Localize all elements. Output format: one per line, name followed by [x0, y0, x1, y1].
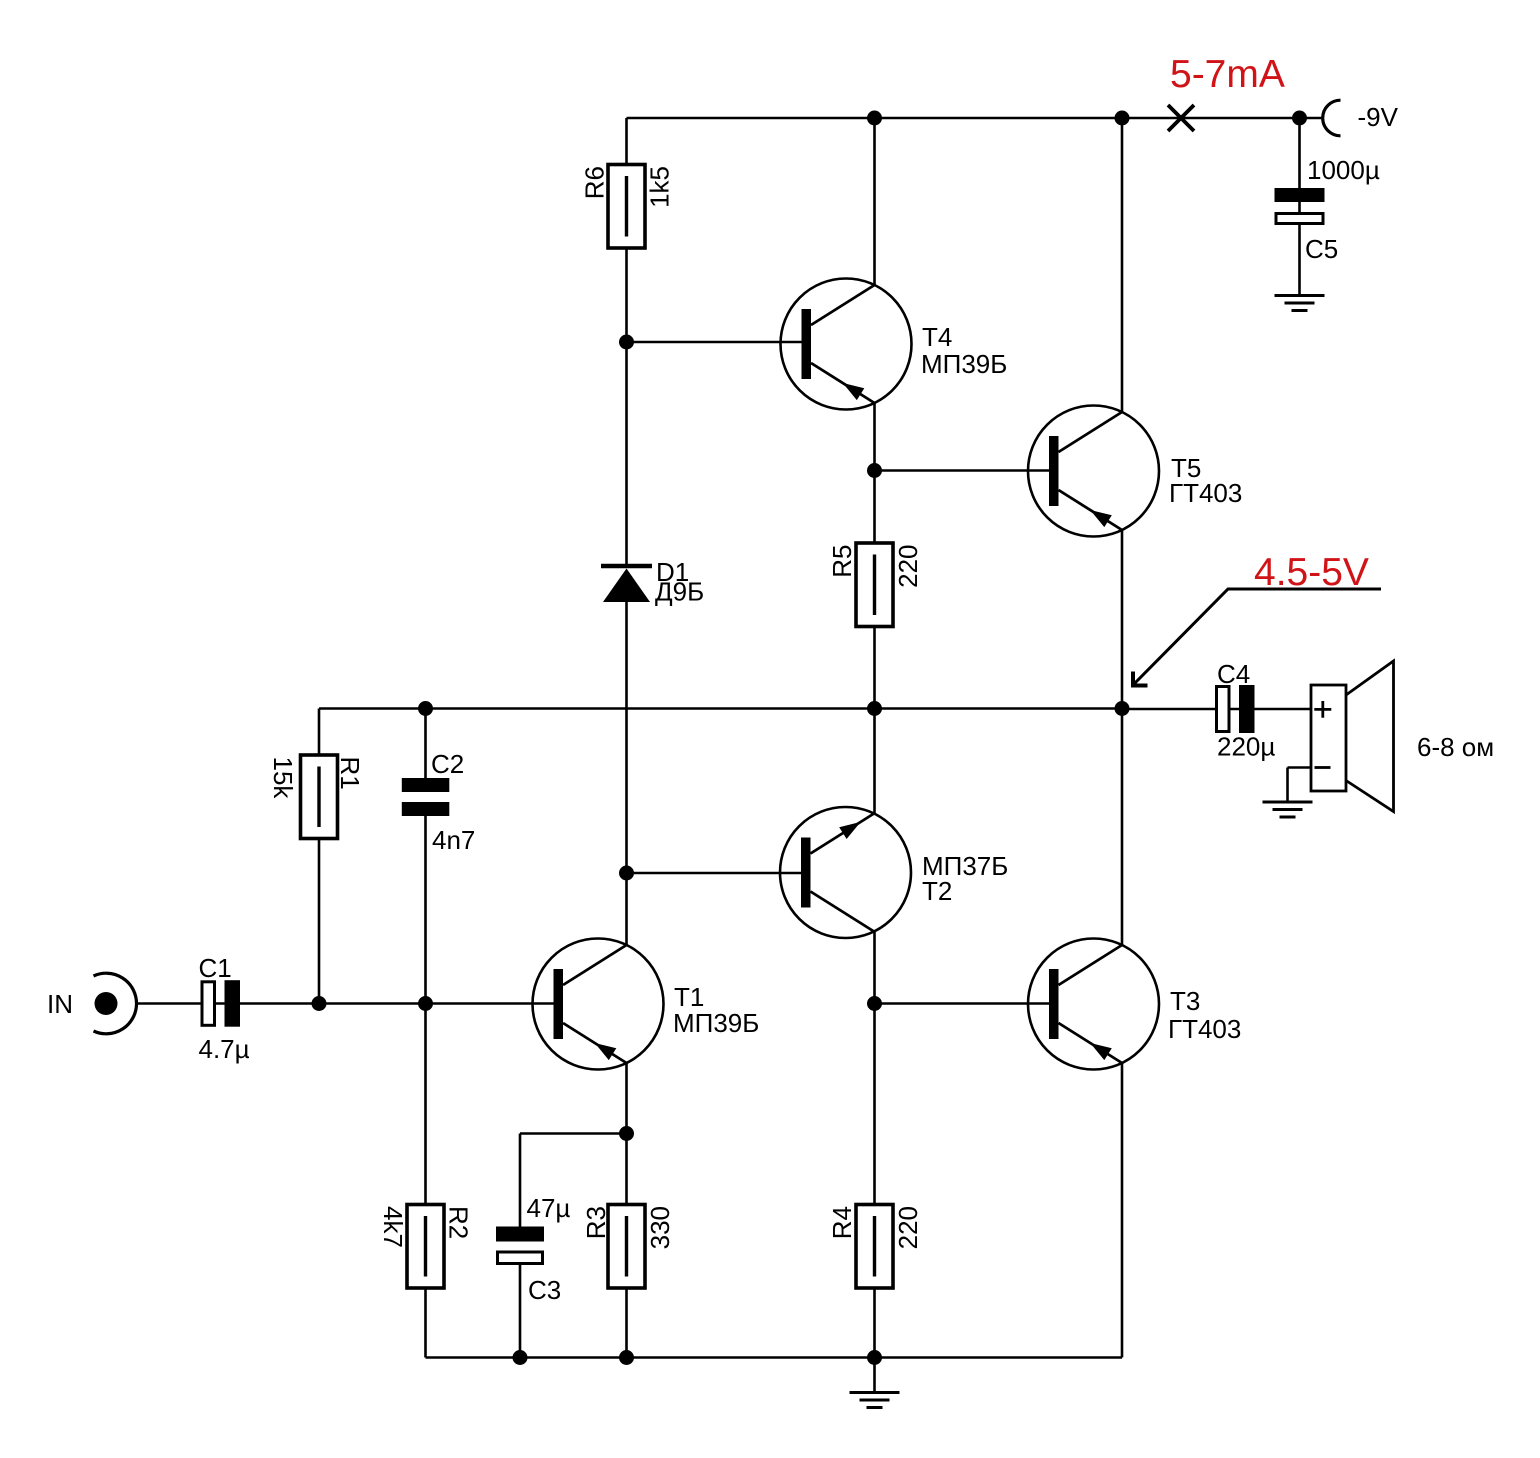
svg-text:4.5-5V: 4.5-5V [1254, 551, 1369, 594]
svg-text:T2: T2 [922, 876, 952, 906]
svg-text:4.7µ: 4.7µ [199, 1034, 250, 1064]
svg-text:15k: 15k [268, 757, 298, 800]
svg-text:T4: T4 [922, 322, 952, 352]
svg-text:МП39Б: МП39Б [921, 349, 1007, 379]
svg-text:IN: IN [47, 989, 73, 1019]
svg-text:4k7: 4k7 [378, 1206, 408, 1248]
svg-text:T3: T3 [1170, 986, 1200, 1016]
svg-text:220µ: 220µ [1217, 732, 1275, 762]
svg-text:-9V: -9V [1358, 102, 1399, 132]
svg-text:R3: R3 [581, 1206, 611, 1239]
svg-text:4n7: 4n7 [432, 825, 475, 855]
svg-text:6-8 ом: 6-8 ом [1417, 732, 1494, 762]
svg-text:1k5: 1k5 [645, 166, 675, 208]
svg-text:ГТ403: ГТ403 [1169, 478, 1242, 508]
svg-text:R1: R1 [335, 757, 365, 790]
svg-text:R6: R6 [580, 166, 610, 199]
svg-text:ГТ403: ГТ403 [1168, 1014, 1241, 1044]
svg-text:Д9Б: Д9Б [655, 577, 704, 607]
svg-text:C5: C5 [1305, 234, 1338, 264]
svg-text:C4: C4 [1217, 659, 1250, 689]
svg-text:R5: R5 [827, 545, 857, 578]
svg-text:R2: R2 [444, 1206, 474, 1239]
svg-text:МП39Б: МП39Б [673, 1008, 759, 1038]
svg-text:5-7mA: 5-7mA [1170, 53, 1285, 96]
svg-text:47µ: 47µ [527, 1193, 571, 1223]
svg-text:C2: C2 [431, 749, 464, 779]
svg-text:R4: R4 [827, 1206, 857, 1239]
svg-text:C3: C3 [528, 1275, 561, 1305]
svg-text:1000µ: 1000µ [1307, 155, 1380, 185]
svg-text:330: 330 [645, 1206, 675, 1249]
svg-text:220: 220 [893, 1206, 923, 1249]
svg-text:220: 220 [893, 545, 923, 588]
svg-text:C1: C1 [199, 953, 232, 983]
